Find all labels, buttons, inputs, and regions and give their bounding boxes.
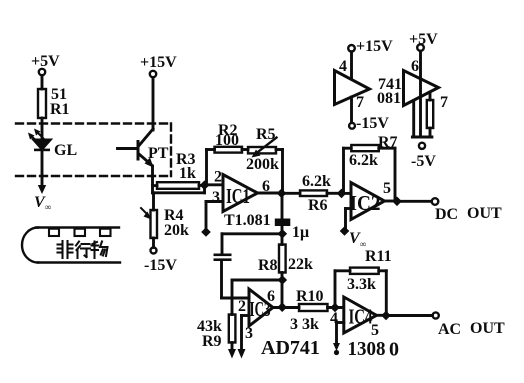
svg-text:∞: ∞ [360,239,366,249]
svg-text:3: 3 [245,325,253,342]
svg-text:PT: PT [148,145,169,162]
svg-text:6: 6 [267,288,275,305]
svg-text:1308: 1308 [348,338,386,360]
svg-text:6: 6 [262,178,270,195]
svg-text:OUT: OUT [467,205,502,222]
svg-text:4: 4 [330,310,338,327]
svg-text:6.2k: 6.2k [349,152,378,169]
svg-text:T1.081: T1.081 [224,212,271,229]
svg-text:DC: DC [435,206,458,223]
svg-text:IC4: IC4 [349,305,373,329]
svg-text:OUT: OUT [470,320,505,337]
svg-text:R6: R6 [308,197,328,214]
svg-text:R10: R10 [296,288,324,305]
svg-text:R9: R9 [202,333,222,350]
svg-text:AC: AC [438,321,461,338]
svg-text:3 3k: 3 3k [290,316,319,333]
svg-text:20k: 20k [164,222,189,239]
svg-text:6: 6 [411,58,419,75]
svg-text:2: 2 [238,298,246,315]
svg-text:IC2: IC2 [350,191,381,215]
svg-text:081: 081 [377,90,401,107]
svg-text:+5V: +5V [409,31,438,48]
svg-text:R8: R8 [258,257,278,274]
svg-text:100: 100 [215,132,239,149]
svg-text:+5V: +5V [31,53,60,70]
svg-text:∞: ∞ [45,202,51,212]
svg-text:0: 0 [389,339,399,361]
svg-text:IC1: IC1 [226,184,250,208]
svg-text:6.2k: 6.2k [302,173,331,190]
svg-text:R7: R7 [378,134,398,151]
svg-text:5: 5 [371,322,379,339]
svg-text:5: 5 [383,180,391,197]
svg-text:7: 7 [440,94,448,111]
svg-text:4: 4 [339,58,347,75]
svg-text:+15V: +15V [356,38,393,55]
svg-text:22k: 22k [288,256,313,273]
svg-text:-5V: -5V [411,153,436,170]
svg-text:1μ: 1μ [292,224,309,241]
svg-text:R1: R1 [50,101,70,118]
svg-text:-15V: -15V [144,257,177,274]
svg-text:7: 7 [356,94,364,111]
svg-text:AD741: AD741 [261,337,320,359]
svg-text:2: 2 [214,169,222,186]
svg-text:GL: GL [54,142,77,159]
svg-text:R11: R11 [365,248,392,265]
svg-text:+15V: +15V [140,54,177,71]
svg-text:1k: 1k [179,165,196,182]
svg-text:-15V: -15V [356,115,389,132]
svg-text:R5: R5 [256,126,276,143]
svg-text:3: 3 [212,189,220,206]
svg-text:3.3k: 3.3k [347,276,376,293]
svg-text:200k: 200k [246,156,279,173]
